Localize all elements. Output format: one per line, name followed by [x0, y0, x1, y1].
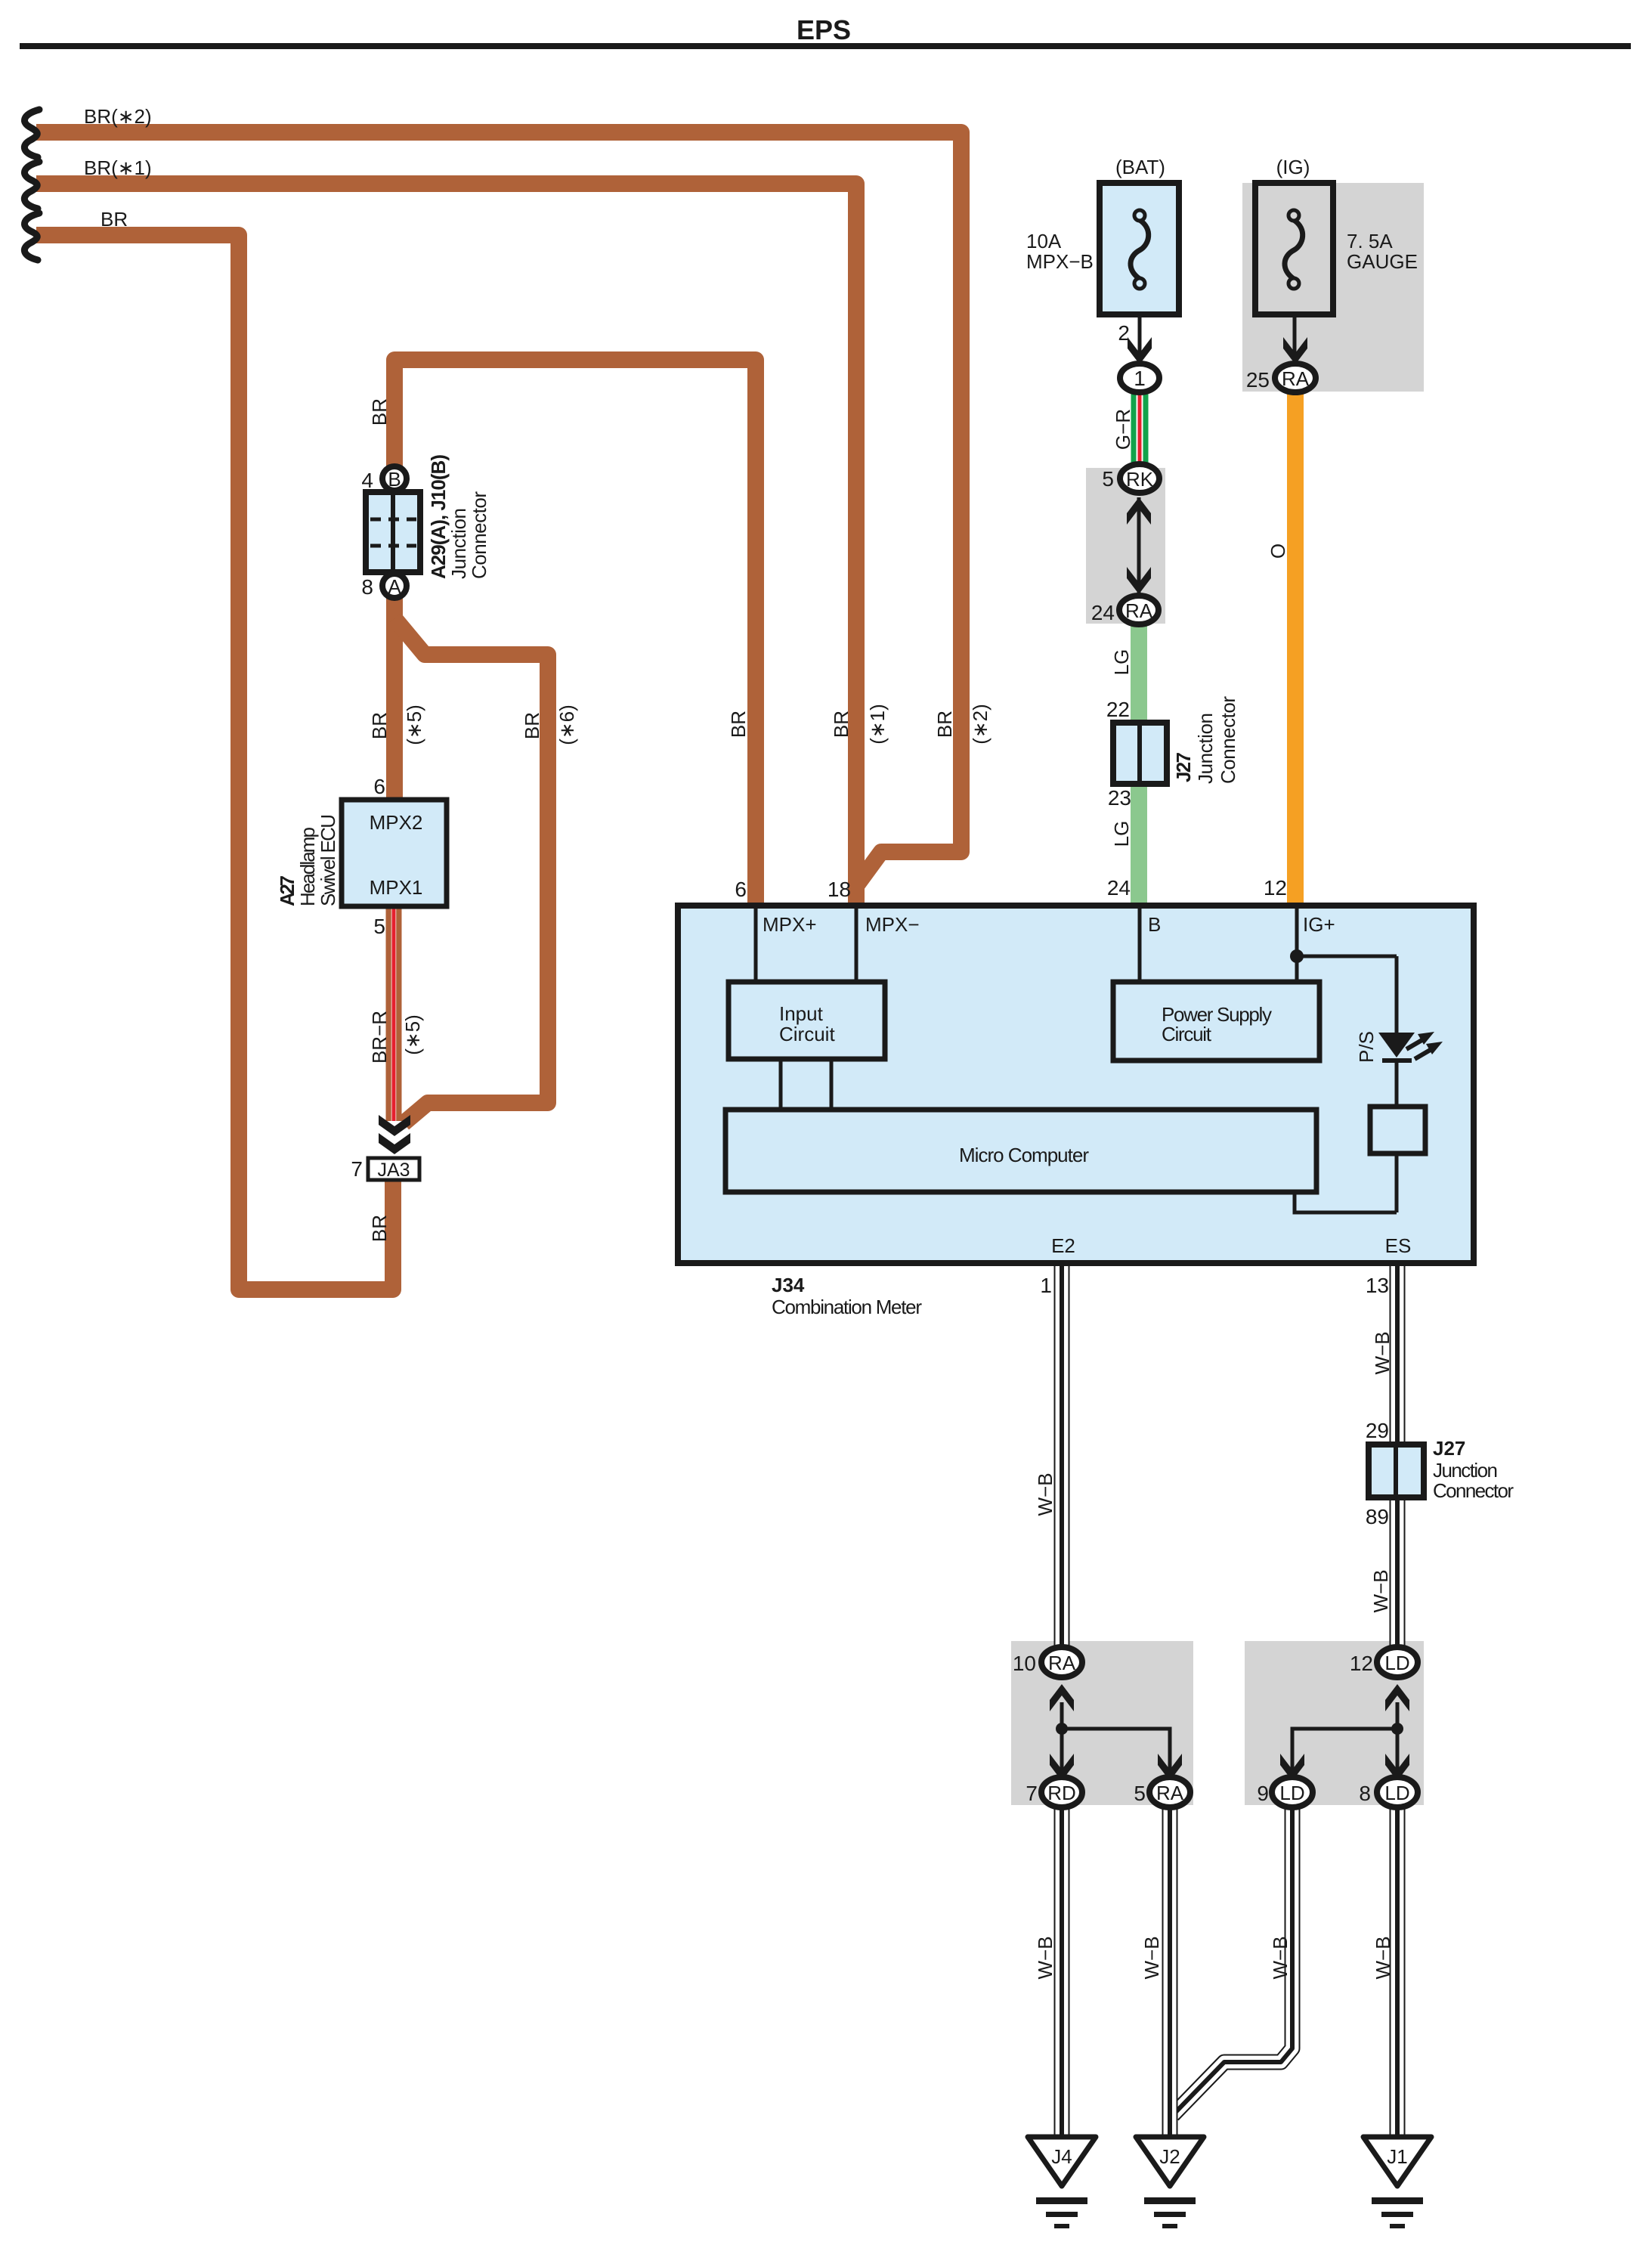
svg-text:8: 8 — [1359, 1782, 1371, 1805]
svg-text:BR: BR — [933, 711, 956, 738]
svg-text:IG+: IG+ — [1303, 913, 1335, 936]
svg-text:Connector: Connector — [468, 491, 490, 579]
input circuit box — [729, 982, 885, 1059]
wire G-R fuse to RK — [1131, 382, 1149, 472]
svg-text:BR: BR — [368, 1215, 391, 1242]
svg-text:RA: RA — [1125, 599, 1153, 622]
wire micro computer to ES — [1295, 1192, 1397, 1212]
svg-text:RK: RK — [1126, 468, 1154, 491]
svg-text:A29(A), J10(B): A29(A), J10(B) — [427, 454, 450, 579]
svg-text:W−B: W−B — [1371, 1331, 1394, 1374]
svg-text:(∗2): (∗2) — [969, 704, 992, 745]
junction connector J27 (29/89) — [1369, 1445, 1424, 1497]
gray background IG fuse area — [1242, 183, 1424, 392]
wire BR from break down-left loop to JA3 — [36, 235, 393, 1290]
svg-text:B: B — [388, 468, 401, 491]
gray box bottom right (LD/LD/LD) — [1245, 1641, 1424, 1805]
svg-text:18: 18 — [828, 878, 851, 901]
svg-text:(∗5): (∗5) — [403, 704, 425, 745]
svg-text:Combination Meter: Combination Meter — [772, 1296, 922, 1318]
svg-text:BR: BR — [368, 398, 391, 426]
svg-text:7. 5A: 7. 5A — [1347, 230, 1393, 252]
svg-text:GAUGE: GAUGE — [1347, 250, 1418, 273]
ECU A27 Headlamp Swivel — [342, 800, 447, 906]
svg-text:Circuit: Circuit — [1162, 1023, 1212, 1045]
connector oval 1 — [1120, 364, 1159, 392]
svg-text:9: 9 — [1257, 1782, 1269, 1805]
svg-text:W−B: W−B — [1034, 1472, 1056, 1516]
svg-text:Circuit: Circuit — [779, 1023, 835, 1045]
connector oval LD 9 — [1272, 1777, 1313, 1807]
svg-text:7: 7 — [351, 1157, 363, 1181]
junction connector J27 (22/23) — [1113, 723, 1167, 784]
svg-text:BR(∗1): BR(∗1) — [84, 156, 152, 179]
svg-text:MPX−B: MPX−B — [1026, 250, 1094, 273]
svg-text:J2: J2 — [1159, 2145, 1180, 2168]
svg-text:(∗6): (∗6) — [555, 704, 578, 745]
svg-text:23: 23 — [1108, 786, 1131, 810]
svg-text:J34: J34 — [772, 1274, 805, 1296]
svg-text:89: 89 — [1366, 1505, 1389, 1528]
connector oval LD 8 — [1377, 1777, 1418, 1807]
svg-text:5: 5 — [1134, 1782, 1146, 1805]
svg-text:J1: J1 — [1387, 2145, 1407, 2168]
junction connector A29(A), J10(B) — [366, 492, 420, 572]
svg-text:LG: LG — [1110, 821, 1133, 847]
meter pin 6 internal line — [754, 909, 758, 982]
ground J2 — [1136, 2137, 1204, 2228]
svg-text:1: 1 — [1040, 1274, 1052, 1297]
wire W-B ES pin 13 through J27 to LD 12 — [1390, 1265, 1406, 1649]
svg-text:Micro Computer: Micro Computer — [959, 1144, 1089, 1166]
svg-text:LD: LD — [1384, 1652, 1409, 1674]
meter pin 12 internal line — [1295, 909, 1299, 982]
svg-text:24: 24 — [1091, 601, 1115, 624]
svg-text:Headlamp: Headlamp — [296, 827, 319, 906]
svg-text:10: 10 — [1013, 1652, 1036, 1675]
wire BR(*1) from break to MPX- pin 18 — [36, 184, 856, 903]
svg-text:J4: J4 — [1051, 2145, 1072, 2168]
svg-text:Input: Input — [779, 1002, 824, 1025]
node left box — [1056, 1723, 1068, 1735]
svg-text:Connector: Connector — [1433, 1479, 1514, 1502]
svg-text:BR: BR — [727, 711, 750, 738]
wire W-B RA 5 to ground J2 — [1162, 1807, 1178, 2141]
wire LED to resistor box — [1395, 1063, 1399, 1107]
svg-text:O: O — [1267, 543, 1289, 559]
node on IG+ line — [1290, 949, 1304, 963]
svg-text:BR: BR — [521, 712, 543, 739]
gray background RK/RA area — [1086, 468, 1165, 624]
combination meter J34 box — [678, 906, 1474, 1263]
svg-text:MPX2: MPX2 — [370, 811, 423, 834]
internal wiring right gray box — [1396, 1702, 1400, 1778]
wire node to LED branch — [1297, 955, 1397, 958]
svg-text:A27: A27 — [276, 875, 299, 906]
wire fuse IG to connector RA 25 — [1293, 314, 1297, 355]
wire BR(*2) from break to MPX- pin 18 — [36, 132, 961, 903]
fuse 7.5A GAUGE (IG) — [1255, 183, 1333, 314]
svg-text:12: 12 — [1264, 876, 1287, 900]
wire break squiggle 1 — [24, 110, 39, 157]
svg-text:(∗5): (∗5) — [401, 1014, 424, 1055]
double chevron into JA3 — [379, 1115, 410, 1136]
svg-text:BR: BR — [101, 208, 128, 231]
wire O orange from RA 25 to meter pin 12 — [1287, 382, 1304, 904]
svg-text:6: 6 — [373, 775, 385, 798]
svg-text:2: 2 — [1118, 321, 1130, 345]
svg-text:6: 6 — [735, 878, 747, 901]
svg-text:5: 5 — [373, 915, 385, 938]
svg-text:Junction: Junction — [1433, 1459, 1498, 1482]
connector oval RA 25 — [1275, 364, 1316, 392]
internal wiring left gray box — [1060, 1702, 1064, 1778]
input to micro links — [779, 1059, 783, 1110]
svg-text:W−B: W−B — [1372, 1936, 1394, 1979]
svg-text:8: 8 — [361, 575, 373, 599]
svg-text:BR: BR — [830, 711, 852, 738]
svg-text:BR: BR — [368, 712, 391, 739]
svg-text:E2: E2 — [1051, 1234, 1075, 1257]
wire LG from RA 24 through J27 to meter pin 24 — [1131, 614, 1147, 904]
connector oval RA 10 — [1041, 1647, 1082, 1677]
wire break squiggle 3 — [24, 213, 39, 260]
svg-text:W−B: W−B — [1269, 1936, 1292, 1979]
svg-text:EPS: EPS — [797, 14, 851, 45]
svg-text:J27: J27 — [1433, 1437, 1465, 1460]
svg-text:(BAT): (BAT) — [1115, 156, 1165, 178]
connector oval RK 5 — [1120, 464, 1159, 493]
svg-text:7: 7 — [1026, 1782, 1038, 1805]
svg-text:W−B: W−B — [1140, 1936, 1163, 1979]
svg-text:(IG): (IG) — [1276, 156, 1310, 178]
wire W-B E2 pin 1 to RA 10 — [1054, 1265, 1070, 1649]
svg-text:24: 24 — [1107, 876, 1131, 900]
svg-text:RA: RA — [1282, 367, 1310, 390]
connector oval LD 12 — [1377, 1647, 1418, 1677]
svg-text:4: 4 — [361, 469, 373, 492]
svg-text:W−B: W−B — [1034, 1936, 1056, 1979]
wire resistor to ES — [1395, 1153, 1399, 1212]
wire BR-R (*5) from A27 pin 5 to JA3 — [386, 906, 402, 1121]
wire W-B LD 8 to ground J1 — [1390, 1807, 1406, 2141]
svg-text:RD: RD — [1047, 1782, 1076, 1804]
connector circle B pin 4 — [382, 466, 407, 491]
wire RK 5 to RA 24 — [1137, 497, 1141, 594]
svg-text:BR−R: BR−R — [368, 1011, 391, 1064]
svg-text:Junction: Junction — [447, 508, 470, 579]
svg-text:BR(∗2): BR(∗2) — [84, 105, 152, 128]
node right box — [1391, 1723, 1403, 1735]
svg-text:Connector: Connector — [1217, 696, 1239, 784]
wire fuse BAT pin 2 to connector 1 — [1138, 314, 1142, 355]
connector circle A pin 8 — [382, 574, 407, 598]
svg-text:A: A — [388, 575, 401, 598]
fuse 10A MPX-B (BAT) — [1100, 183, 1179, 314]
svg-text:J27: J27 — [1172, 752, 1195, 782]
svg-text:MPX+: MPX+ — [763, 913, 817, 936]
svg-text:12: 12 — [1350, 1652, 1373, 1675]
gray box bottom left (RA/RD/RA) — [1011, 1641, 1193, 1805]
connector oval RA 5 — [1149, 1777, 1190, 1807]
svg-text:LD: LD — [1279, 1782, 1304, 1804]
svg-text:Junction: Junction — [1194, 713, 1217, 784]
svg-text:13: 13 — [1366, 1274, 1389, 1297]
meter pin 18 internal line — [855, 909, 858, 982]
wire W-B RD 7 to ground J4 — [1054, 1807, 1070, 2141]
svg-text:LG: LG — [1110, 649, 1133, 676]
LED P/S indicator — [1378, 1032, 1443, 1063]
svg-text:ES: ES — [1385, 1234, 1412, 1257]
wire BR(*5) from junction A down to A27 pin 6 — [386, 597, 403, 801]
svg-text:10A: 10A — [1026, 230, 1062, 252]
svg-text:P/S: P/S — [1355, 1031, 1378, 1063]
svg-text:Swivel ECU: Swivel ECU — [317, 814, 339, 906]
svg-text:RA: RA — [1156, 1782, 1184, 1804]
meter pin 24 internal line — [1138, 909, 1142, 982]
ground J4 — [1028, 2137, 1096, 2228]
connector oval RA 24 — [1119, 596, 1159, 624]
resistor box — [1370, 1107, 1425, 1153]
svg-text:B: B — [1148, 913, 1161, 936]
wire W-B from LD 9 merging into J2 ground wire — [1173, 1807, 1292, 2115]
connector JA3 pin 7 — [368, 1158, 419, 1180]
svg-text:W−B: W−B — [1369, 1569, 1392, 1612]
svg-text:MPX−: MPX− — [865, 913, 920, 936]
wire BR(*6) branch from A around A27 to JA3 — [394, 618, 548, 1123]
connector oval RD 7 — [1041, 1777, 1082, 1807]
svg-text:LD: LD — [1384, 1782, 1409, 1804]
ground J1 — [1363, 2137, 1431, 2228]
power supply circuit box — [1113, 982, 1319, 1061]
svg-text:MPX1: MPX1 — [370, 876, 423, 899]
top rule — [20, 43, 1631, 49]
svg-text:1: 1 — [1134, 367, 1146, 390]
svg-text:(∗1): (∗1) — [866, 704, 889, 745]
svg-text:G−R: G−R — [1112, 409, 1134, 450]
svg-text:25: 25 — [1246, 368, 1270, 392]
svg-text:22: 22 — [1106, 698, 1130, 721]
svg-text:JA3: JA3 — [377, 1160, 410, 1181]
wire BR from junction B up right down to MPX+ pin 6 — [394, 360, 756, 903]
svg-text:RA: RA — [1048, 1652, 1076, 1674]
wire break squiggle 2 — [24, 162, 39, 209]
svg-text:5: 5 — [1102, 467, 1114, 491]
micro computer box — [725, 1110, 1316, 1192]
svg-text:29: 29 — [1366, 1419, 1389, 1442]
